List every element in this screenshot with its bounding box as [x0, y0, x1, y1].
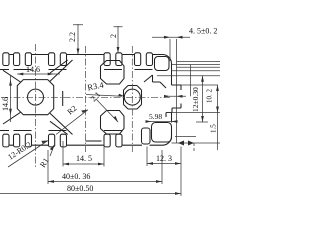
svg-text:5.98: 5.98: [149, 112, 162, 121]
leader 2.1 line: [96, 99, 118, 122]
svg-text:14.6: 14.6: [1, 97, 10, 111]
small bore circle: [124, 89, 140, 105]
right side extension line y136.5: [175, 136, 196, 138]
right face slot lip lines: [166, 85, 181, 123]
right side extension line y67: [177, 66, 221, 68]
dimension 2.2 extension line: [73, 24, 83, 55]
svg-text:14.6: 14.6: [26, 65, 40, 74]
profile mid vertical centerline: [85, 46, 87, 152]
svg-text:12. 3: 12. 3: [156, 154, 172, 163]
cell 1 corner cross webs: [3, 70, 21, 124]
right face lower stub: [171, 132, 173, 136]
bottom right hook: [142, 128, 151, 144]
dimension 14.6 top arrows: [17, 73, 53, 76]
dimension 12+-0.30 arrows: [201, 76, 204, 122]
dimension 14.6 top line: [17, 73, 60, 75]
lip thickness arrows: [178, 141, 194, 146]
bottom-right corner cavity: [152, 123, 172, 143]
svg-text:14. 5: 14. 5: [76, 154, 92, 163]
right face upper segment: [171, 64, 173, 86]
NE web lines: [144, 75, 166, 88]
dimension 40 extensions: [48, 150, 162, 184]
right side extension line y112.5: [166, 112, 220, 114]
dimension 80 line: [0, 193, 181, 195]
svg-text:40±0. 36: 40±0. 36: [62, 172, 90, 181]
right side extension line y61.5: [177, 61, 221, 63]
mid web diagonal ribs: [50, 60, 73, 135]
short dashed line x194: [193, 143, 195, 153]
right side extension line y143: [172, 142, 221, 144]
dimension 80 extension: [180, 147, 182, 197]
right side centerline arrows: [164, 95, 183, 98]
dimension 40 arrows: [48, 180, 162, 183]
leader R2 line: [56, 110, 88, 135]
svg-text:12±0.30: 12±0.30: [191, 87, 200, 112]
leader R1 line: [50, 145, 55, 157]
leader 12-R0.2 line: [8, 141, 48, 168]
bottom slot D': [104, 134, 110, 147]
top slot E: [135, 53, 141, 66]
svg-text:2: 2: [109, 34, 118, 38]
right side extension line y70.5: [172, 70, 221, 72]
right side extension line y122: [196, 121, 208, 123]
dimension 5.98 line: [146, 121, 176, 123]
dimension 14.5 line: [63, 163, 104, 165]
cell 1 center bore circle: [28, 89, 44, 105]
horizontal centerline: [1, 96, 170, 98]
dimension 12+-0.30 line: [202, 76, 204, 122]
dimension 10.2 arrows: [216, 85, 219, 113]
cavity NW octagon (slot D chamber): [101, 61, 125, 85]
dimension 4.5 line: [152, 36, 190, 38]
dimension 10.2 line: [217, 85, 219, 150]
dimension 4.5 extension lines: [170, 39, 177, 143]
top-right corner screw channel: [155, 57, 170, 71]
svg-text:10. 2: 10. 2: [206, 89, 214, 104]
top slot A (cut at left edge): [3, 53, 9, 66]
cell 1 octagon cavity: [17, 80, 53, 115]
dimension 5.98 arrows: [146, 120, 178, 123]
svg-text:2.2: 2.2: [68, 32, 77, 42]
right side extension line y85: [181, 84, 218, 86]
bottom-right corner radius: [163, 136, 172, 145]
dimension 2 extension line: [114, 26, 123, 53]
dimension 40 line: [48, 181, 162, 183]
top slot B: [14, 53, 20, 66]
top-right corner radius: [163, 55, 172, 64]
svg-text:1.5: 1.5: [210, 124, 218, 133]
svg-text:80±0.50: 80±0.50: [67, 184, 93, 193]
top face line: [10, 54, 164, 56]
dimension 14.6 left line: [10, 76, 12, 122]
dimension 4.5 arrows: [164, 36, 183, 39]
bottom slot C': [49, 134, 55, 147]
bottom web line under cell2: [86, 140, 102, 142]
bottom face line: [10, 144, 164, 146]
dimension 80 arrow: [175, 192, 181, 195]
dimension 12.3 line: [147, 163, 181, 165]
leader R3.4 line: [86, 95, 122, 97]
bottom slot A' (cut at left edge): [3, 134, 9, 147]
svg-text:4. 5±0. 2: 4. 5±0. 2: [189, 27, 217, 36]
cell 2 vertical centerline: [131, 46, 133, 152]
cell 1 vertical centerline: [35, 44, 37, 168]
dimension 12.3 arrows: [147, 162, 181, 165]
dimension 14.6 left arrows: [9, 80, 12, 115]
right side extension line y64: [172, 64, 221, 66]
web ring around small bore: [124, 86, 142, 110]
top slot D: [104, 53, 110, 66]
dimension 14.5 extensions: [63, 141, 104, 167]
right side web extension line y75.8: [157, 75, 220, 77]
top slot C: [49, 53, 55, 66]
cavity SW octagon (slot D' chamber): [101, 111, 125, 135]
bottom slot B': [14, 134, 20, 147]
dimension 12.3 extension: [146, 147, 148, 167]
dimension 14.5 arrows: [63, 163, 104, 166]
right side vertical dim line x190.5: [190, 65, 192, 97]
